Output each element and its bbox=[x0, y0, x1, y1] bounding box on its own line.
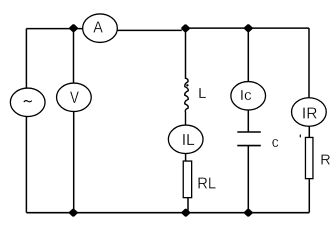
svg-text:IL: IL bbox=[182, 132, 195, 149]
svg-text:A: A bbox=[93, 20, 103, 36]
svg-text:L: L bbox=[198, 85, 206, 102]
svg-text:R: R bbox=[320, 152, 330, 168]
svg-text:Ic: Ic bbox=[240, 87, 252, 104]
svg-text:RL: RL bbox=[197, 175, 216, 193]
svg-text:c: c bbox=[272, 135, 279, 151]
svg-text:IR: IR bbox=[302, 106, 318, 123]
svg-text:V: V bbox=[70, 89, 79, 108]
